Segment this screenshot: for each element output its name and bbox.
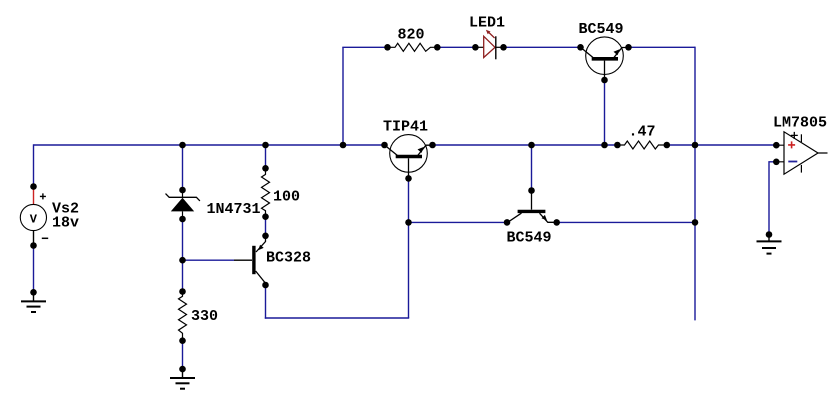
wire main rail left segment [34, 144, 385, 146]
ground below Vs2 [21, 294, 46, 312]
resistor R 820 [388, 43, 438, 51]
svg-text:TIP41: TIP41 [383, 119, 428, 136]
ground below LM7805 [757, 236, 782, 254]
wire R100 to BC328 emitter [265, 217, 267, 236]
transistor BC549 middle [507, 192, 557, 222]
transistor BC328 [234, 237, 266, 285]
voltage source Vs2 [20, 189, 48, 246]
wire rail to mid BC549 base [531, 145, 533, 191]
wire main rail middle segment [433, 144, 618, 146]
wire top rail seg1 [342, 46, 387, 48]
wire rail to zener [182, 145, 184, 190]
wire rail to R100 [265, 145, 267, 168]
svg-text:1N4731: 1N4731 [207, 201, 261, 218]
wire BC328 collector down [265, 285, 267, 319]
wire top rail seg2 [437, 46, 475, 48]
wire R330 to ground [182, 341, 184, 369]
svg-text:LED1: LED1 [469, 15, 505, 32]
wire right vertical [694, 47, 696, 321]
svg-text:LM7805: LM7805 [773, 115, 827, 132]
transistor TIP41 [385, 135, 433, 179]
regulator LM7805 [776, 132, 827, 174]
wire BC549 top base to rail [604, 80, 606, 145]
transistor BC549 top [581, 37, 629, 80]
junction and pin dots [30, 44, 779, 372]
wire top rail seg4 [629, 46, 696, 48]
wire zener to R330 [182, 219, 184, 292]
wire emitter row left [409, 221, 508, 223]
svg-text:100: 100 [273, 189, 300, 206]
svg-text:18v: 18v [52, 215, 79, 232]
svg-text:BC549: BC549 [507, 230, 552, 247]
zener diode 1N4731 [166, 190, 200, 219]
wire LM7805 minus to ground [769, 162, 776, 235]
wire base branch to BC328 [183, 259, 235, 261]
svg-text:BC328: BC328 [266, 250, 311, 267]
wire riser to top rail [342, 47, 344, 145]
svg-text:V: V [30, 212, 38, 226]
LED LED1 [477, 30, 502, 60]
wire top rail seg3 [504, 46, 581, 48]
resistor 100 [262, 168, 270, 216]
wire left vertical above Vs2 [33, 144, 35, 186]
svg-text:BC549: BC549 [579, 21, 624, 38]
wire TIP41 base down [408, 178, 410, 318]
wire emitter row right [557, 221, 695, 223]
wire Vs2 to ground [33, 246, 35, 293]
svg-text:.47: .47 [629, 124, 656, 141]
resistor .47 [617, 141, 666, 149]
resistor 330 [179, 292, 187, 341]
wire bottom return [265, 317, 409, 319]
svg-text:330: 330 [191, 308, 218, 325]
wire main rail right segment [667, 144, 777, 146]
svg-text:820: 820 [398, 27, 425, 44]
ground below 330 [170, 371, 195, 389]
